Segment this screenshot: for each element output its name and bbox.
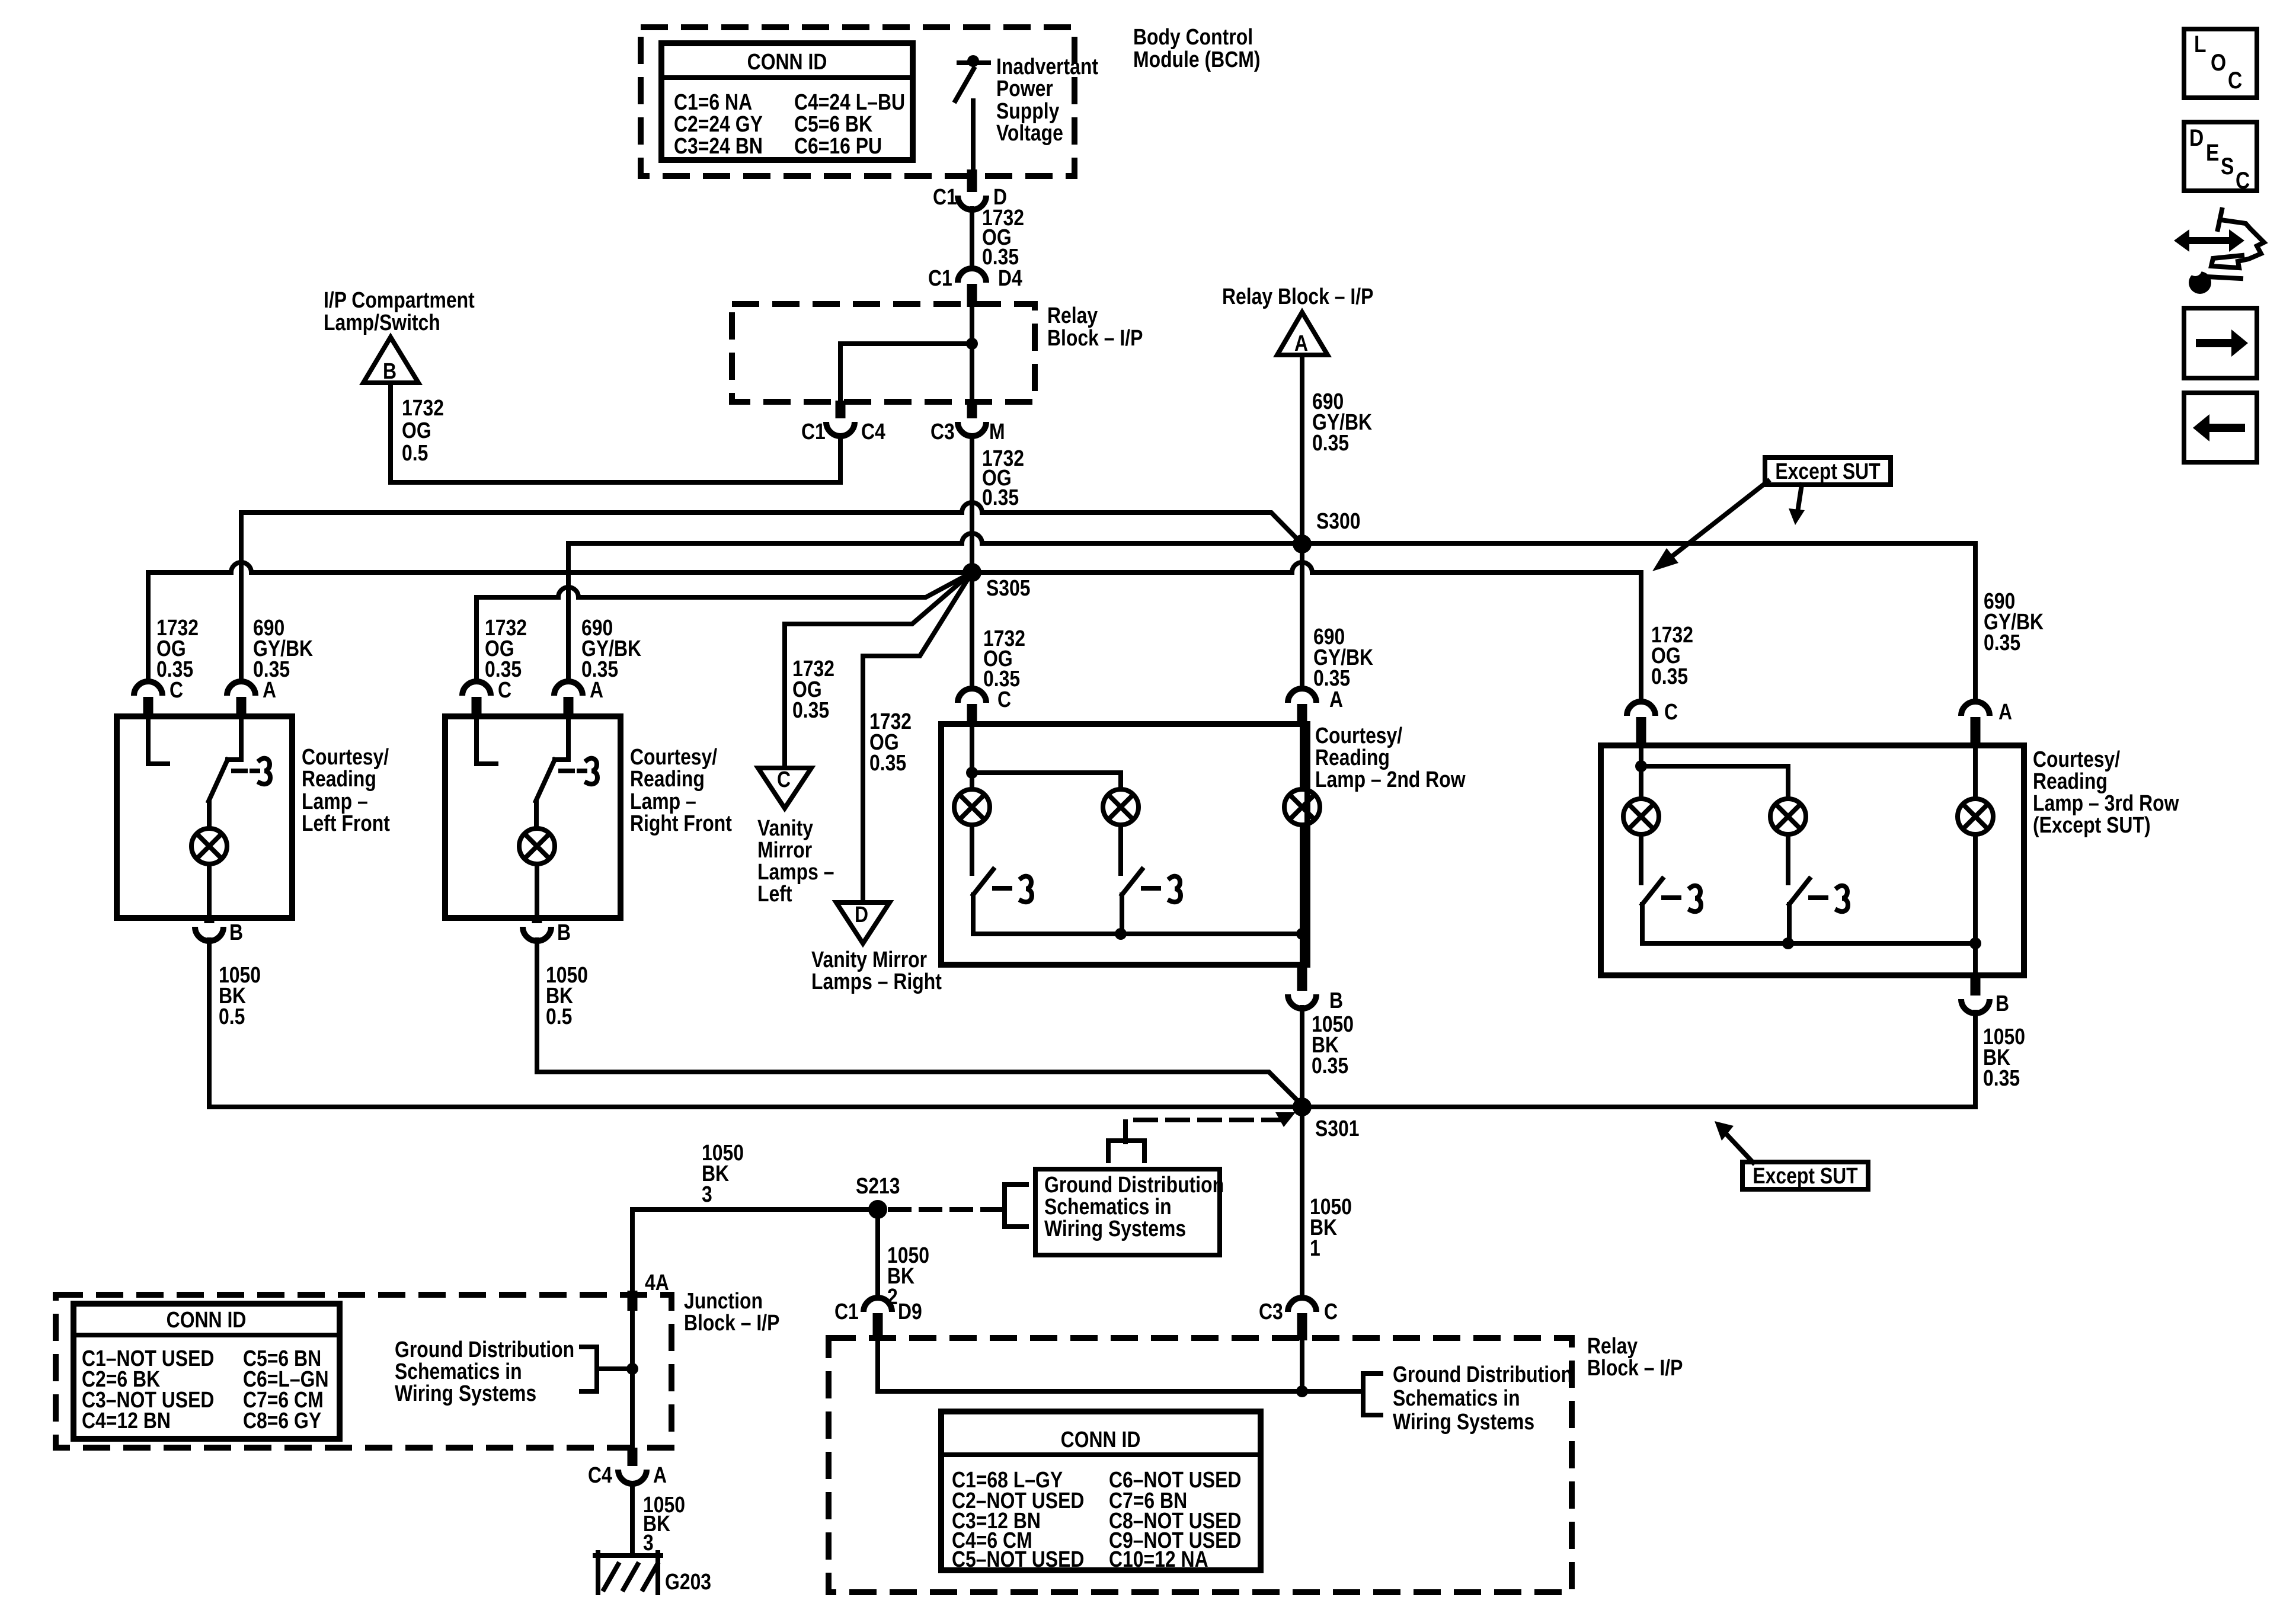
wire 1732 OG 0.35 (C3/M down to S305) [972,436,1024,572]
connector C1 / D [933,169,1007,210]
svg-text:C: C [2236,167,2250,193]
ground G203 [595,1553,711,1595]
2nd row lamp 3 [1284,789,1320,825]
svg-text:C4=12 BN: C4=12 BN [82,1408,171,1433]
svg-text:C: C [498,677,511,702]
svg-text:B: B [229,920,243,945]
svg-text:A: A [263,677,276,702]
svg-text:C3: C3 [930,419,955,444]
bracket (junction block ground distribution) [581,1347,638,1391]
connector B (right front) [523,917,571,945]
triangle A (relay block) [1277,312,1328,356]
3rd row switch 2 [1789,879,1809,904]
connector C1 / D9 [834,1298,922,1340]
connector C3 / M [930,419,1005,444]
relay block interior wires [878,1340,1363,1397]
junction block vertical wire [630,1292,635,1369]
wire: S300 bus upper-left (y=865) [241,502,1302,544]
left front interior: wire to B [207,864,212,916]
svg-text:C: C [777,767,791,792]
svg-text:S: S [2221,153,2234,179]
svg-text:Reading: Reading [302,766,376,791]
svg-text:C3=24 BN: C3=24 BN [674,133,763,158]
svg-text:C: C [170,677,183,702]
svg-text:G203: G203 [665,1569,711,1594]
right front interior: C stub [477,719,496,764]
Except SUT callout (top right) [1652,457,1891,571]
wire: right front A vertical [566,543,571,681]
left front interior: switch [209,719,270,828]
switch: Inadvertant Power Supply Voltage [955,54,1098,173]
svg-text:Schematics in: Schematics in [1044,1194,1172,1219]
wire 1050 BK 0.5 (left front B to S301) [209,940,1975,1107]
svg-text:0.35: 0.35 [1983,1065,2020,1090]
Courtesy/Reading Lamp - Left Front box [117,716,292,918]
svg-text:D4: D4 [998,265,1022,290]
svg-text:O: O [2211,49,2226,75]
svg-text:C2=24 GY: C2=24 GY [674,111,763,136]
svg-text:A: A [1294,331,1308,356]
2nd row switch 1 [973,869,993,895]
svg-text:D: D [855,902,868,927]
wire: central vertical S305 down to 2nd row C [970,572,974,689]
node S300 [1293,508,1361,553]
svg-text:B: B [383,359,396,383]
2nd row lamp 1 [954,789,990,825]
svg-text:Left: Left [757,881,792,906]
bracket (S213 ground distribution) [1005,1185,1027,1227]
connector C (right front) [462,677,511,718]
wire 1050 BK 0.5 (right front B to S301) [537,940,1302,1105]
svg-text:Reading: Reading [1315,745,1390,770]
svg-text:Vanity: Vanity [757,815,813,840]
svg-text:B: B [1329,988,1343,1013]
svg-text:Block – I/P: Block – I/P [684,1310,779,1335]
svg-text:A: A [1998,699,2012,724]
right front lamp [519,828,555,864]
dashed pointer to S301 from ground distribution stub [1108,1112,1296,1161]
3rd row switch 1 [1642,879,1662,904]
svg-text:Reading: Reading [630,766,705,791]
3rd row lamp 1 [1623,799,1659,834]
right front interior: wire to B [535,864,539,916]
svg-text:Module (BCM): Module (BCM) [1133,47,1260,72]
svg-text:OG: OG [402,418,431,443]
svg-text:0.5: 0.5 [402,440,428,465]
svg-text:Lamp – 2nd Row: Lamp – 2nd Row [1315,767,1466,792]
2nd row interior wiring [966,725,1308,940]
wire 1732 OG 0.35 (BCM to relay block) [972,205,1024,269]
connector A (left front) [227,677,276,718]
svg-text:C5–NOT USED: C5–NOT USED [952,1547,1084,1571]
left front lamp [191,828,227,864]
wire: left front A vertical [239,513,244,681]
Courtesy/Reading Lamp - 3rd Row box [1601,745,2024,975]
svg-text:C1=6 NA: C1=6 NA [674,89,752,114]
CONN ID table (BCM) [661,43,913,160]
svg-text:S213: S213 [856,1173,900,1198]
svg-text:Power: Power [996,76,1053,101]
svg-text:Courtesy/: Courtesy/ [2033,747,2120,772]
wire: S300 bus y=917 (right front A to 3rd row A) [568,533,1975,702]
svg-text:0.5: 0.5 [546,1004,572,1029]
connector A (2nd row) [1288,687,1343,726]
node S305 [962,563,1031,601]
connector B (left front) [195,917,243,945]
svg-text:M: M [989,419,1005,444]
svg-text:S301: S301 [1315,1116,1360,1141]
svg-text:0.35: 0.35 [869,750,906,775]
svg-text:C: C [1324,1299,1338,1324]
svg-text:C1: C1 [933,184,957,209]
svg-text:Ground Distribution: Ground Distribution [395,1337,574,1362]
svg-text:Ground Distribution: Ground Distribution [1044,1172,1224,1197]
triangle B (I/P compartment lamp/switch) [363,337,418,384]
svg-text:Lamps –: Lamps – [757,859,834,884]
svg-text:C4=24 L–BU: C4=24 L–BU [794,89,905,114]
svg-text:Courtesy/: Courtesy/ [302,744,389,769]
connector A (3rd row) [1961,699,2012,748]
svg-text:D9: D9 [898,1299,922,1324]
car diagnostic icon [2174,210,2264,294]
svg-text:Vanity Mirror: Vanity Mirror [811,947,927,972]
svg-text:Relay: Relay [1047,303,1098,328]
wire 1050 BK 2 (S213 to C1/D9) [878,1209,929,1310]
wire 1050 BK 3 (C4/A to G203) [632,1484,685,1555]
svg-text:CONN ID: CONN ID [167,1307,247,1332]
svg-text:Supply: Supply [996,98,1060,123]
Junction Block - I/P dashed box [56,1295,671,1448]
svg-text:D: D [2189,124,2204,151]
wire: S305 to vanity mirror right (y=1107) [863,572,972,902]
svg-text:0.35: 0.35 [1312,430,1349,455]
svg-text:Ground Distribution: Ground Distribution [1393,1362,1572,1387]
svg-text:Lamps – Right: Lamps – Right [811,969,942,994]
svg-text:S300: S300 [1316,508,1361,533]
CONN ID table (relay block) [941,1411,1261,1572]
svg-text:Mirror: Mirror [757,837,813,862]
triangle C (vanity mirror lamps left) [758,767,811,808]
svg-text:Block – I/P: Block – I/P [1587,1355,1683,1380]
2nd row lamp 2 [1103,789,1139,825]
svg-text:C8=6 GY: C8=6 GY [243,1408,321,1433]
svg-text:C5=6 BK: C5=6 BK [794,111,872,136]
connector B (2nd row) [1288,934,1343,1013]
svg-text:CONN ID: CONN ID [747,49,827,74]
svg-text:Wiring Systems: Wiring Systems [1044,1216,1186,1241]
wire: S305 bus (y=966) [148,562,1641,702]
bracket (relay block ground distribution) [1363,1374,1381,1415]
svg-text:A: A [653,1462,667,1487]
connector A (right front) [554,677,603,718]
svg-text:0.35: 0.35 [1312,1053,1348,1078]
3rd row lamp 3 [1958,799,1993,834]
Except SUT callout (bottom) [1715,1121,1868,1189]
svg-text:C10=12 NA: C10=12 NA [1109,1547,1208,1571]
connector C1 / C4 [801,419,885,444]
dashed wire S213 to bracket [890,1207,1005,1212]
svg-text:C4: C4 [861,419,885,444]
svg-text:A: A [590,677,603,702]
svg-text:Relay Block – I/P: Relay Block – I/P [1222,284,1373,309]
svg-text:C1: C1 [928,265,952,290]
svg-text:B: B [1996,991,2009,1016]
Relay Block - I/P dashed box (top) [732,304,1035,402]
connector C1 / D4 [928,265,1022,307]
CONN ID table (junction block) [73,1304,340,1439]
Courtesy/Reading Lamp - Right Front box [445,716,621,918]
svg-text:Lamp – 3rd Row: Lamp – 3rd Row [2033,790,2179,815]
svg-text:1: 1 [1310,1235,1320,1260]
svg-text:Except SUT: Except SUT [1753,1163,1858,1188]
svg-text:0.35: 0.35 [982,485,1019,510]
connector C (left front) [134,677,183,718]
wire 690 GY/BK 0.35 (triangle A to S300) [1302,355,1372,544]
svg-text:Left Front: Left Front [302,811,390,836]
svg-text:CONN ID: CONN ID [1061,1427,1141,1452]
Body Control Module (BCM) box [641,27,1075,176]
svg-text:Courtesy/: Courtesy/ [630,744,717,769]
3rd row interior wiring [1635,748,1981,949]
svg-text:C: C [1664,699,1678,724]
svg-text:Lamp –: Lamp – [302,789,368,814]
wire 1050 BK 1 (S301 to C3/C) [1302,1107,1352,1298]
svg-text:B: B [557,920,571,945]
wire inside relay block [840,307,978,401]
forward arrow icon [2184,308,2257,378]
connector C (2nd row) [958,687,1011,726]
2nd row switch 2 [1122,869,1142,895]
svg-text:0.35: 0.35 [1984,630,2020,655]
node S213 [856,1173,900,1219]
svg-text:(Except SUT): (Except SUT) [2033,812,2151,837]
Courtesy/Reading Lamp - 2nd Row box [941,724,1307,965]
svg-text:Block – I/P: Block – I/P [1047,325,1143,350]
svg-text:Except SUT: Except SUT [1775,459,1881,484]
svg-text:Wiring Systems: Wiring Systems [1393,1409,1534,1434]
svg-text:C3: C3 [1259,1299,1283,1324]
svg-text:S305: S305 [986,575,1031,600]
svg-text:Lamp –: Lamp – [630,789,696,814]
wire 1050 BK 0.35 (2nd row B to S301) [1302,1007,1354,1107]
connector C3 / C [1259,1298,1338,1340]
svg-text:Voltage: Voltage [996,120,1063,145]
svg-text:Body Control: Body Control [1133,24,1253,49]
svg-text:Relay: Relay [1587,1333,1638,1358]
LOC icon [2184,29,2257,98]
connector B (3rd row) [1961,943,2009,1016]
svg-text:Reading: Reading [2033,769,2108,793]
svg-text:I/P Compartment: I/P Compartment [324,287,475,312]
svg-text:0.5: 0.5 [219,1004,245,1029]
3rd row lamp 2 [1770,799,1806,834]
wire 1050 BK 3 (junction block to S213) [632,1140,878,1369]
wire: S305 to vanity mirror left (y=1053) [785,572,972,768]
wire: S305 to right front C (y=1008) [477,572,972,681]
svg-text:E: E [2206,139,2219,165]
svg-text:Inadvertant: Inadvertant [996,54,1098,79]
svg-text:C6=16 PU: C6=16 PU [794,133,882,158]
svg-text:C4: C4 [588,1462,612,1487]
wire: S300 vertical down to 2nd row A [1300,544,1304,689]
Ground Distribution Schematics box (near S213) [1035,1169,1224,1255]
left front interior: C stub [148,719,168,764]
svg-text:C: C [2228,67,2242,93]
svg-text:A: A [1329,687,1343,712]
svg-text:Wiring Systems: Wiring Systems [395,1381,536,1406]
svg-text:0.35: 0.35 [792,697,829,722]
svg-text:C: C [997,687,1011,712]
svg-text:C1: C1 [801,419,826,444]
svg-text:4A: 4A [645,1270,669,1295]
node S301 [1293,1097,1360,1141]
svg-text:Lamp/Switch: Lamp/Switch [324,310,440,335]
svg-text:Junction: Junction [684,1288,763,1313]
Relay Block - I/P dashed box (bottom) [829,1338,1572,1592]
svg-text:Courtesy/: Courtesy/ [1315,723,1402,748]
right front interior: switch [536,719,597,828]
svg-text:Schematics in: Schematics in [1393,1385,1520,1410]
svg-text:C1: C1 [834,1299,859,1324]
svg-text:0.35: 0.35 [1651,664,1688,689]
wire 1732 OG 0.5 (triangle B to C1/C4) [391,383,840,482]
svg-text:L: L [2194,31,2207,57]
DESC icon [2184,122,2257,194]
svg-text:3: 3 [702,1182,712,1206]
connector C4 / A [588,1462,667,1487]
connector C (3rd row) [1627,699,1678,748]
svg-text:Schematics in: Schematics in [395,1359,522,1384]
back arrow icon [2184,393,2257,462]
svg-text:3: 3 [643,1530,654,1555]
triangle D (vanity mirror lamps right) [836,902,890,943]
svg-text:1732: 1732 [402,395,444,420]
svg-text:Right Front: Right Front [630,811,732,836]
